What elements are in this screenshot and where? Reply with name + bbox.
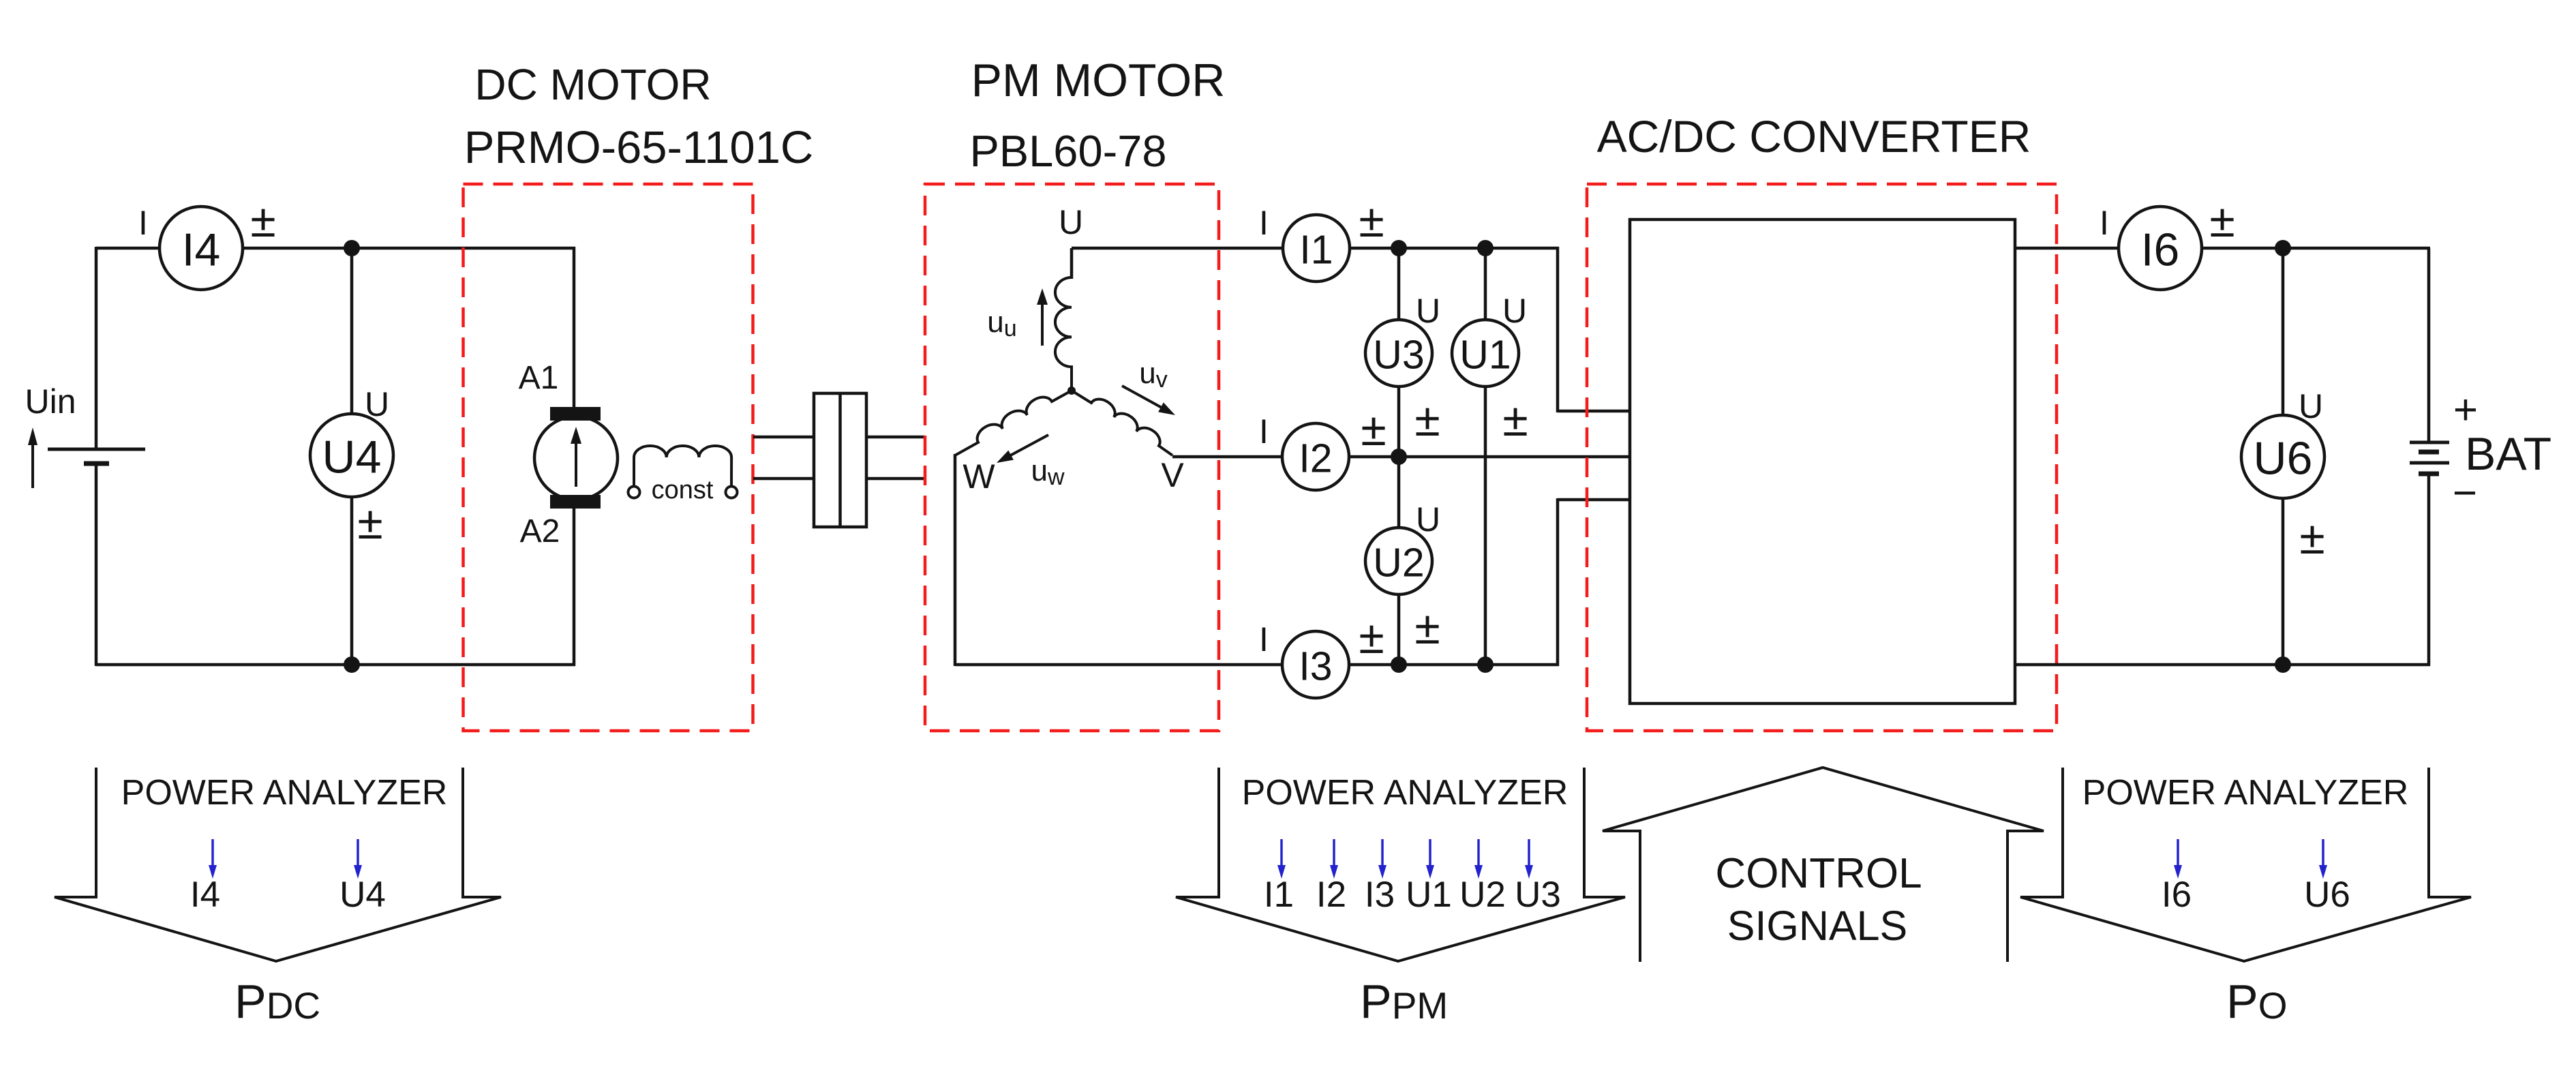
- label POWER ANALYZER left: [121, 773, 448, 813]
- node junction I1/U3: [1391, 240, 1407, 256]
- label PO: [2226, 975, 2287, 1028]
- label I2 (analyzer input): [1316, 875, 1346, 915]
- label V phase terminal: [1161, 456, 1184, 494]
- svg-text:U6: U6: [2304, 875, 2350, 915]
- label SIGNALS: [1727, 903, 1907, 949]
- node junction top (I4/U4): [344, 240, 360, 256]
- wire A1 vertical into motor: [573, 247, 576, 409]
- label U3 (analyzer input): [1515, 875, 1561, 915]
- blue arrow I4: [209, 839, 217, 879]
- label U4 (analyzer input): [339, 875, 386, 915]
- winding phase V coil: [1072, 391, 1172, 455]
- label PM MOTOR title: [971, 55, 1226, 106]
- svg-text:U2: U2: [1459, 875, 1506, 915]
- label PDC: [234, 975, 320, 1028]
- label AC/DC CONVERTER title: [1597, 111, 2031, 162]
- svg-text:uw: uw: [1031, 454, 1064, 490]
- node junction bottom (U4/bottom wire): [344, 656, 360, 673]
- svg-text:Uin: Uin: [25, 382, 76, 421]
- dashed enclosure AC/DC converter: [1587, 184, 2057, 731]
- label A2: [520, 513, 560, 549]
- svg-text:±: ±: [250, 195, 275, 247]
- wire I2 into converter: [1349, 455, 1630, 459]
- svg-text:const: const: [652, 476, 714, 504]
- dc motor brush bottom: [550, 495, 601, 509]
- svg-text:I3: I3: [1365, 875, 1395, 915]
- wire corner down (top feed): [1556, 247, 1560, 412]
- label I (left of I1): [1259, 204, 1269, 242]
- svg-text:I: I: [1259, 412, 1269, 451]
- dc motor rotation arrow: [571, 427, 581, 487]
- wire U terminal vertical: [1070, 248, 1074, 279]
- wire I3 to corner: [1349, 663, 1559, 667]
- dashed enclosure DC motor: [464, 184, 753, 731]
- svg-text:V: V: [1161, 456, 1184, 494]
- ammeter I6: [2119, 207, 2202, 290]
- battery Uin long plate: [48, 448, 145, 451]
- blue arrow U6: [2319, 839, 2327, 879]
- voltmeter U2: [1365, 528, 1432, 594]
- svg-text:±: ±: [357, 497, 382, 549]
- svg-text:±: ±: [1359, 195, 1384, 247]
- wire top-left horizontal (Uin+ to I4): [96, 247, 160, 250]
- svg-text:AC/DC CONVERTER: AC/DC CONVERTER: [1597, 111, 2031, 162]
- field winding const coil: [634, 446, 731, 486]
- label U (above U4): [365, 385, 389, 423]
- wire U1 lower long: [1484, 387, 1487, 666]
- svg-text:I4: I4: [190, 875, 220, 915]
- label POWER ANALYZER right: [2082, 773, 2409, 813]
- svg-text:I: I: [1259, 620, 1269, 658]
- label U (above U3): [1416, 292, 1440, 330]
- label U phase terminal: [1059, 203, 1083, 241]
- wire U2 upper: [1397, 457, 1401, 528]
- svg-text:I6: I6: [2141, 224, 2180, 276]
- control signals arrow: [1603, 768, 2044, 962]
- wire I6 to BAT corner: [2201, 247, 2430, 250]
- svg-text:±: ±: [1414, 394, 1440, 446]
- wire left vertical (Uin- to bottom wire): [95, 464, 98, 666]
- wire W bottom horizontal to I3: [955, 663, 1284, 667]
- label uu with arrow: [987, 288, 1048, 346]
- svg-text:A1: A1: [519, 360, 559, 396]
- svg-text:I: I: [138, 204, 148, 242]
- svg-text:±: ±: [1502, 394, 1528, 446]
- svg-text:PDC: PDC: [234, 975, 320, 1028]
- svg-text:±: ±: [2299, 512, 2324, 564]
- svg-text:I1: I1: [1299, 227, 1333, 272]
- svg-text:PO: PO: [2226, 975, 2287, 1028]
- wire U3 lower: [1397, 387, 1401, 458]
- svg-text:A2: A2: [520, 513, 560, 549]
- node junction I1/U1: [1477, 240, 1494, 256]
- shaft line left lower: [753, 477, 815, 481]
- svg-text:U3: U3: [1373, 332, 1424, 377]
- wire corner up (bottom feed): [1556, 498, 1560, 666]
- label I3 (analyzer input): [1365, 875, 1395, 915]
- svg-text:PRMO-65-1101C: PRMO-65-1101C: [464, 122, 814, 173]
- svg-text:±: ±: [1359, 611, 1384, 663]
- wire U4 branch upper: [350, 248, 354, 415]
- wire U6 lower: [2282, 498, 2285, 666]
- label U6 (analyzer input): [2304, 875, 2350, 915]
- wire U2 lower: [1397, 594, 1401, 666]
- label U (above U2): [1416, 500, 1440, 539]
- coupling box: [814, 393, 866, 527]
- blue arrow I3: [1378, 839, 1387, 879]
- voltmeter U4: [310, 414, 393, 497]
- star node: [1067, 387, 1076, 395]
- svg-text:CONTROL: CONTROL: [1715, 850, 1922, 897]
- converter block U1: [1630, 219, 2015, 703]
- wire left vertical (Uin to top wire): [95, 247, 98, 449]
- svg-text:U: U: [1416, 292, 1440, 330]
- label I (left of I3): [1259, 620, 1269, 658]
- svg-text:U1: U1: [1406, 875, 1452, 915]
- blue arrow U4: [354, 839, 362, 879]
- svg-text:U1: U1: [1459, 332, 1511, 377]
- label &#177; (below U3): [1414, 394, 1440, 446]
- svg-text:uv: uv: [1139, 357, 1167, 393]
- ammeter I4: [160, 207, 243, 290]
- svg-text:U: U: [1416, 500, 1440, 539]
- label PBL60-78: [969, 126, 1166, 176]
- svg-text:I3: I3: [1299, 644, 1332, 688]
- ammeter I2: [1282, 423, 1349, 490]
- voltage source Uin direction arrow: [28, 427, 37, 488]
- label U2 (analyzer input): [1459, 875, 1506, 915]
- label &#177; (below U6): [2299, 512, 2324, 564]
- label &#8722; (battery negative): [2453, 470, 2477, 517]
- svg-text:POWER ANALYZER: POWER ANALYZER: [1242, 773, 1569, 813]
- label I4 (analyzer input): [190, 875, 220, 915]
- svg-text:W: W: [963, 457, 995, 496]
- label &#177; (right of I2): [1361, 404, 1386, 455]
- label uv with arrow: [1122, 357, 1175, 415]
- wire U3 upper: [1397, 248, 1401, 320]
- label I (left of I6): [2100, 204, 2109, 242]
- field winding const terminal right: [726, 487, 738, 498]
- label I (left of I4): [138, 204, 148, 242]
- wire V to I2: [1172, 455, 1284, 459]
- battery BAT plate4 short: [2419, 472, 2439, 476]
- label A1: [519, 360, 559, 396]
- label I6 (analyzer input): [2162, 875, 2192, 915]
- node junction I3/U2: [1391, 656, 1407, 673]
- svg-text:U4: U4: [339, 875, 386, 915]
- label CONTROL: [1715, 850, 1922, 897]
- blue arrow I1: [1277, 839, 1286, 879]
- svg-text:±: ±: [1414, 602, 1440, 654]
- svg-text:SIGNALS: SIGNALS: [1727, 903, 1907, 949]
- svg-text:U6: U6: [2254, 433, 2313, 485]
- battery BAT plate3 long: [2410, 461, 2449, 465]
- label POWER ANALYZER middle: [1242, 773, 1569, 813]
- node junction I2/U3/U2: [1391, 449, 1407, 465]
- voltage source Uin label: [25, 382, 76, 421]
- battery BAT plate2 short: [2419, 450, 2439, 455]
- svg-text:+: +: [2453, 387, 2478, 434]
- svg-text:U: U: [1059, 203, 1083, 241]
- wire A2 vertical to bottom wire: [573, 507, 576, 666]
- field winding const terminal left: [628, 487, 640, 498]
- svg-text:DC MOTOR: DC MOTOR: [474, 60, 711, 109]
- wire BAT vertical lower: [2427, 475, 2431, 666]
- wire W vertical: [954, 454, 957, 666]
- blue arrow U1: [1426, 839, 1434, 879]
- dc motor brush top: [550, 407, 601, 421]
- battery Uin short plate: [84, 461, 109, 466]
- power analyzer funnel middle: [1176, 768, 1625, 961]
- label U (above U1): [1502, 292, 1527, 330]
- blue arrow I2: [1330, 839, 1338, 879]
- wire converter to BAT bottom: [2015, 663, 2430, 667]
- dc motor M1 circle: [534, 417, 618, 500]
- voltmeter U3: [1365, 320, 1432, 387]
- svg-text:I2: I2: [1316, 875, 1346, 915]
- wire I4 to DC motor A1 corner: [243, 247, 575, 250]
- label I1 (analyzer input): [1264, 875, 1294, 915]
- label I (left of I2): [1259, 412, 1269, 451]
- voltmeter U6: [2241, 415, 2324, 498]
- label &#177; (below U1): [1502, 394, 1528, 446]
- wire U4 branch lower: [350, 496, 354, 665]
- svg-text:POWER ANALYZER: POWER ANALYZER: [2082, 773, 2409, 813]
- blue arrow U3: [1525, 839, 1533, 879]
- wire bottom-left horizontal (Uin- to A2): [96, 663, 575, 667]
- svg-text:uu: uu: [987, 305, 1016, 342]
- svg-text:I1: I1: [1264, 875, 1294, 915]
- label U1 (analyzer input): [1406, 875, 1452, 915]
- label &#177; (below U2): [1414, 602, 1440, 654]
- wire BAT vertical upper: [2427, 248, 2431, 442]
- label &#177; (right of I4): [250, 195, 275, 247]
- label PPM: [1360, 975, 1448, 1028]
- svg-text:PPM: PPM: [1360, 975, 1448, 1028]
- shaft line left upper: [753, 436, 815, 439]
- wire U top horizontal to I1: [1072, 247, 1284, 250]
- label DC MOTOR title: [474, 60, 711, 109]
- label PRMO-65-1101C: [464, 122, 814, 173]
- label &#177; (below U4): [357, 497, 382, 549]
- svg-text:U4: U4: [322, 431, 382, 483]
- node junction I3/U1: [1477, 656, 1494, 673]
- node junction I6/U6: [2275, 240, 2291, 256]
- dashed enclosure PM motor: [925, 184, 1219, 731]
- voltmeter U1: [1452, 320, 1519, 387]
- svg-text:I: I: [2100, 204, 2109, 242]
- label uw with arrow: [997, 435, 1065, 490]
- battery BAT plate1 long: [2410, 441, 2449, 444]
- wire bottom feed into converter: [1558, 498, 1630, 502]
- wire U6 upper: [2282, 248, 2285, 417]
- svg-text:I2: I2: [1299, 436, 1332, 481]
- power analyzer funnel left: [55, 768, 501, 961]
- svg-text:U: U: [1502, 292, 1527, 330]
- label + (battery positive): [2453, 387, 2478, 434]
- power analyzer funnel right: [2020, 768, 2471, 961]
- svg-text:±: ±: [1361, 404, 1386, 455]
- node junction U6 bottom: [2275, 656, 2291, 673]
- svg-text:BAT: BAT: [2465, 428, 2551, 480]
- svg-text:POWER ANALYZER: POWER ANALYZER: [121, 773, 448, 813]
- shaft line right lower: [865, 477, 925, 481]
- svg-text:−: −: [2453, 470, 2477, 517]
- blue arrow I6: [2174, 839, 2182, 879]
- label &#177; (right of I6): [2209, 195, 2234, 247]
- svg-text:I: I: [1259, 204, 1269, 242]
- svg-text:I6: I6: [2162, 875, 2192, 915]
- ammeter I3: [1282, 631, 1349, 698]
- svg-text:±: ±: [2209, 195, 2234, 247]
- svg-text:PM MOTOR: PM MOTOR: [971, 55, 1226, 106]
- winding phase W coil: [955, 391, 1072, 455]
- label &#177; (right of I1): [1359, 195, 1384, 247]
- label U (above U6): [2299, 387, 2323, 425]
- svg-text:U3: U3: [1515, 875, 1561, 915]
- blue arrow U2: [1474, 839, 1483, 879]
- winding phase U coil: [1055, 277, 1072, 392]
- shaft line right upper: [865, 436, 925, 439]
- label BAT: [2465, 428, 2551, 480]
- coupling divider: [838, 393, 842, 527]
- label W phase terminal: [963, 457, 995, 496]
- wire converter to I6: [2015, 247, 2120, 250]
- label const: [652, 476, 714, 504]
- wire U1 upper: [1484, 248, 1487, 320]
- label &#177; (right of I3): [1359, 611, 1384, 663]
- svg-text:PBL60-78: PBL60-78: [969, 126, 1166, 176]
- wire top feed into converter: [1558, 410, 1630, 413]
- ammeter I1: [1283, 215, 1350, 282]
- wire I1 to corner: [1350, 247, 1559, 250]
- svg-text:U2: U2: [1373, 540, 1424, 585]
- svg-text:I4: I4: [182, 224, 221, 276]
